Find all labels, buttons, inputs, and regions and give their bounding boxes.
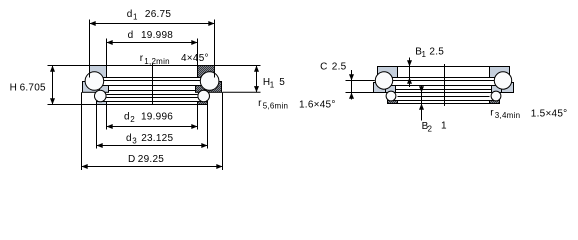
svg-text:2: 2: [428, 125, 433, 134]
svg-text:1: 1: [441, 121, 447, 132]
svg-text:26.75: 26.75: [145, 9, 171, 20]
svg-text:1: 1: [422, 50, 427, 59]
svg-text:6.705: 6.705: [20, 82, 46, 93]
svg-text:d: d: [128, 30, 134, 41]
svg-text:1: 1: [133, 13, 138, 22]
svg-text:D: D: [128, 154, 135, 165]
svg-text:23.125: 23.125: [141, 133, 173, 144]
svg-text:19.998: 19.998: [141, 30, 173, 41]
svg-text:5,6min: 5,6min: [263, 102, 289, 111]
svg-text:2: 2: [130, 115, 135, 124]
svg-text:19.996: 19.996: [141, 112, 173, 123]
svg-text:5: 5: [279, 77, 285, 88]
svg-text:1,2min: 1,2min: [144, 57, 170, 66]
svg-text:2.5: 2.5: [429, 47, 444, 58]
svg-text:d: d: [127, 9, 133, 20]
svg-text:r: r: [140, 53, 144, 64]
svg-text:d: d: [124, 112, 130, 123]
svg-text:29.25: 29.25: [138, 154, 164, 165]
svg-text:3: 3: [132, 137, 137, 146]
svg-text:1.6×45°: 1.6×45°: [299, 100, 336, 111]
svg-text:2.5: 2.5: [332, 61, 347, 72]
svg-text:1: 1: [270, 81, 275, 90]
svg-text:C: C: [320, 61, 327, 72]
svg-text:d: d: [126, 133, 132, 144]
svg-text:4×45°: 4×45°: [181, 53, 209, 64]
svg-text:r: r: [490, 107, 494, 118]
svg-text:3,4min: 3,4min: [495, 111, 521, 120]
svg-text:H: H: [10, 82, 17, 93]
svg-text:r: r: [258, 98, 262, 109]
svg-text:1.5×45°: 1.5×45°: [531, 109, 568, 120]
